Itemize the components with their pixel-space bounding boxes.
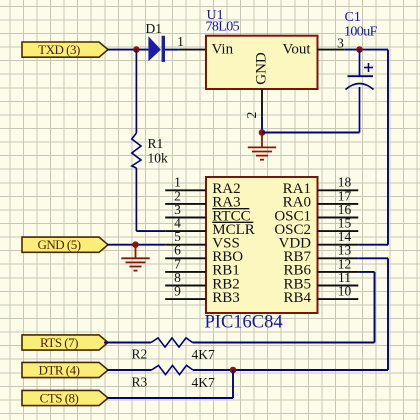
capacitor C1	[346, 50, 374, 133]
svg-text:Vin: Vin	[212, 42, 234, 58]
resistor R3 4K7	[152, 365, 194, 374]
pin 2 of U1	[261, 89, 263, 116]
wire GND port to VSS pin 5	[107, 244, 165, 246]
svg-text:RB3: RB3	[212, 290, 240, 306]
wire CTS net	[107, 397, 233, 399]
svg-text:R3: R3	[132, 375, 148, 390]
svg-text:78L05: 78L05	[206, 20, 240, 35]
pin 3 of PIC16C84	[165, 217, 206, 219]
svg-text:C1: C1	[345, 10, 361, 25]
pin 16 of PIC16C84	[318, 217, 359, 219]
diode D1	[148, 36, 165, 62]
svg-text:2: 2	[244, 112, 259, 119]
wire R1 to MCLR pin 4	[136, 230, 165, 232]
junction dot Vout/C1	[356, 46, 363, 53]
svg-text:1: 1	[177, 34, 184, 49]
pin 5 of PIC16C84	[165, 244, 206, 246]
wire DTR to R3	[107, 369, 152, 371]
pin 4 of PIC16C84	[165, 230, 206, 232]
wire VDD rail	[387, 50, 389, 245]
svg-text:TXD (3): TXD (3)	[38, 42, 80, 57]
wire Vout net	[345, 49, 388, 51]
svg-text:4K7: 4K7	[192, 347, 215, 362]
svg-text:CTS (8): CTS (8)	[40, 390, 79, 405]
junction dot GND	[132, 241, 139, 248]
wire TXD to D1 anode	[107, 49, 148, 51]
svg-text:GND: GND	[254, 52, 270, 85]
svg-text:10: 10	[338, 284, 352, 299]
svg-text:D1: D1	[146, 21, 163, 36]
pin 10 of PIC16C84	[318, 298, 359, 300]
svg-text:RB4: RB4	[283, 290, 311, 306]
pin 3 of U1	[318, 49, 345, 51]
svg-text:GND (5): GND (5)	[37, 237, 80, 252]
wire R3 to junction	[193, 369, 233, 371]
pin 15 of PIC16C84	[318, 230, 359, 232]
junction dot DTR/CTS/RB7	[230, 367, 237, 374]
overline for RTCC	[212, 208, 249, 210]
svg-text:RTS (7): RTS (7)	[40, 335, 78, 350]
svg-text:9: 9	[174, 284, 181, 299]
port DTR (4)	[22, 362, 108, 377]
resistor R1 10k	[135, 50, 137, 133]
overline for MCLR	[212, 221, 253, 223]
wire VDD pin 14 to rail	[358, 244, 388, 246]
pin 8 of PIC16C84	[165, 285, 206, 287]
svg-text:DTR (4): DTR (4)	[39, 362, 80, 377]
pin 6 of PIC16C84	[165, 257, 206, 259]
port GND (5)	[22, 237, 108, 252]
svg-text:4K7: 4K7	[192, 375, 215, 390]
svg-text:PIC16C84: PIC16C84	[205, 313, 283, 333]
pin 11 of PIC16C84	[318, 285, 359, 287]
resistor R2 4K7	[151, 338, 193, 347]
pin 7 of PIC16C84	[165, 271, 206, 273]
junction dot U1 GND/C1	[259, 129, 266, 136]
port TXD (3)	[22, 42, 108, 57]
op-amp U1 regulator 78L05 body	[206, 36, 318, 89]
port CTS (8)	[22, 390, 108, 405]
pin 14 of PIC16C84	[318, 244, 359, 246]
wire RTS to R2	[104, 342, 151, 344]
svg-text:10k: 10k	[148, 151, 169, 166]
svg-text:Vout: Vout	[282, 42, 311, 58]
pin 13 of PIC16C84	[318, 257, 359, 259]
pin 18 of PIC16C84	[318, 189, 359, 191]
junction dot TXD/R1	[133, 46, 140, 53]
IC PIC16C84 body	[206, 177, 318, 313]
pin 1 of U1	[179, 49, 206, 51]
ground symbol at U1	[261, 133, 263, 148]
svg-text:100uF: 100uF	[344, 25, 378, 40]
wire RB7 pin 13 net	[358, 257, 388, 259]
svg-text:R2: R2	[132, 347, 148, 362]
pin 1 of PIC16C84	[165, 189, 206, 191]
port RTS (7)	[22, 335, 108, 350]
pin 9 of PIC16C84	[165, 298, 206, 300]
pin 17 of PIC16C84	[318, 203, 359, 205]
wire RB6 pin 12 net	[358, 271, 374, 273]
pin 12 of PIC16C84	[318, 271, 359, 273]
pin 2 of PIC16C84	[165, 203, 206, 205]
ground symbol at GND port	[135, 245, 137, 259]
svg-text:R1: R1	[148, 136, 164, 151]
wire C1 bottom to ground junction	[262, 132, 360, 134]
wire D1 cathode to U1 pin 1	[165, 49, 179, 51]
wire U1 pin 2 to ground	[261, 116, 263, 132]
